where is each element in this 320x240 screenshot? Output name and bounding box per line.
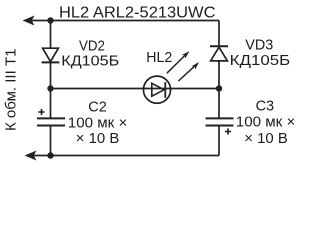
svg-text:VD2: VD2 [79, 38, 105, 54]
arrow top-left [23, 16, 34, 25]
label C3 value line 2 [244, 131, 287, 147]
svg-text:100 мк ×: 100 мк × [236, 115, 295, 131]
wire middle rail [51, 88, 220, 90]
node bottom junction [47, 152, 53, 158]
svg-text:× 10 В: × 10 В [76, 131, 120, 147]
diode VD3 [210, 46, 228, 61]
label К обм. III Т1 (rotated) [3, 49, 20, 132]
wire right vertical (middle node to C3) [218, 89, 220, 118]
LED HL2 [143, 76, 170, 103]
diode VD2 [42, 48, 60, 62]
wire right vertical (VD3 to middle node) [218, 61, 220, 89]
svg-text:VD3: VD3 [245, 38, 273, 54]
wire left vertical (middle node to C2) [50, 89, 52, 118]
capacitor C2 [37, 118, 65, 125]
capacitor C3 [206, 118, 234, 125]
svg-text:HL2 ARL2-5213UWC: HL2 ARL2-5213UWC [59, 5, 216, 22]
svg-text:× 10 В: × 10 В [244, 131, 287, 147]
wire left vertical (VD2 to middle node) [50, 62, 52, 88]
label VD3 [245, 38, 273, 54]
arrow bottom-left [25, 151, 36, 160]
wire right vertical (C3 to bottom corner) [218, 127, 220, 156]
LED light arrow 2 [178, 62, 198, 81]
label VD2 [79, 38, 105, 54]
label КД105Б (VD3) [230, 53, 291, 69]
LED light arrow 1 [167, 52, 189, 74]
label HL2 ARL2-5213UWC [59, 5, 216, 22]
svg-text:100 мк ×: 100 мк × [68, 115, 128, 131]
wire bottom rail [30, 155, 219, 157]
svg-text:К обм. III Т1: К обм. III Т1 [3, 49, 20, 132]
label C2 value line 2 [76, 131, 120, 147]
label КД105Б (VD2) [61, 53, 119, 69]
svg-text:КД105Б: КД105Б [61, 53, 119, 69]
svg-text:КД105Б: КД105Б [230, 53, 291, 69]
wire left vertical (top node to VD2) [50, 21, 52, 49]
wire left vertical (C2 to bottom node) [50, 127, 52, 156]
wire right vertical (top corner down to VD3) [218, 21, 220, 47]
wire top rail [28, 20, 219, 22]
label C2 value line 1 [68, 115, 128, 131]
C2 plus sign [38, 109, 44, 115]
svg-text:HL2: HL2 [146, 50, 172, 66]
label C2 [88, 100, 107, 116]
svg-text:С3: С3 [256, 99, 275, 115]
C3 plus sign [225, 128, 231, 134]
svg-text:С2: С2 [88, 100, 107, 116]
node top junction [47, 17, 53, 23]
node middle-right junction [216, 85, 222, 91]
label HL2 [146, 50, 172, 66]
node middle-left junction [47, 85, 53, 91]
label C3 [256, 99, 275, 115]
label C3 value line 1 [236, 115, 295, 131]
